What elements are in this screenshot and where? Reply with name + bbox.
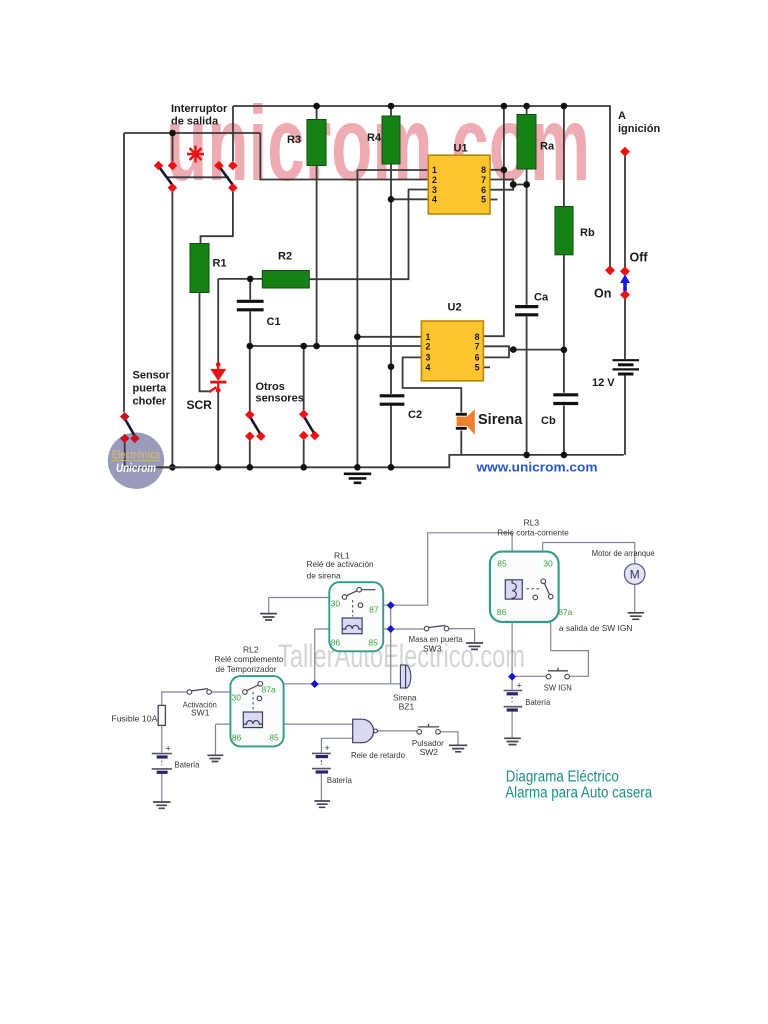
wire fuse bottom to battery [161, 725, 163, 752]
labels SW2 [412, 738, 444, 757]
svg-text:R4: R4 [367, 132, 382, 144]
svg-text:SW IGN: SW IGN [544, 682, 572, 692]
relay RL2 switch [243, 682, 263, 711]
node On diamond [620, 290, 630, 300]
sensor puerta chofer switch [120, 412, 140, 443]
wire C1 leads [249, 279, 251, 346]
ground top [344, 474, 371, 483]
svg-text:86: 86 [232, 733, 242, 743]
svg-text:A: A [618, 110, 626, 122]
motor de arranque [624, 564, 645, 585]
svg-text:a salida de SW IGN: a salida de SW IGN [559, 623, 633, 633]
wire RL1 coil left branch [315, 629, 343, 684]
svg-text:30: 30 [543, 559, 553, 569]
svg-text:SW1: SW1 [191, 707, 210, 717]
wire chofer switch bottom [124, 441, 126, 467]
wire battery left to ground [161, 774, 163, 802]
svg-text:Otros: Otros [256, 381, 285, 393]
svg-text:Masa en puerta: Masa en puerta [409, 634, 463, 644]
svg-text:Sirena: Sirena [478, 412, 523, 428]
wire NAND lower input to battery mid [321, 738, 352, 753]
resistor Ra [517, 115, 536, 170]
wire RL1 87 branch down to sirena line [390, 605, 392, 684]
svg-text:Ca: Ca [534, 292, 549, 304]
wire R4 leads down to U2 pin4 / C2 [390, 106, 392, 394]
svg-text:Fusible 10A: Fusible 10A [111, 714, 157, 724]
wire SCR cathode to rail [217, 391, 219, 468]
wire U2 pin 5 stub [483, 366, 490, 368]
relay RL2 coil [243, 712, 262, 728]
SCR [209, 362, 226, 392]
fuse Fusible 10A [158, 705, 165, 725]
resistor Rb [555, 207, 573, 255]
svg-text:puerta: puerta [133, 383, 168, 395]
svg-text:www.unicrom.com: www.unicrom.com [475, 461, 597, 475]
svg-text:8: 8 [475, 332, 480, 342]
wire SCR anode [217, 279, 219, 364]
wire RL3 87a to SW IGN [551, 599, 589, 677]
svg-text:RL2: RL2 [243, 645, 259, 655]
svg-text:R3: R3 [287, 134, 301, 146]
IC U1 [428, 155, 490, 214]
capacitor Cb [553, 395, 578, 404]
ground SW3 [466, 643, 483, 649]
sirena BZ1 speaker [400, 665, 410, 688]
wire switch1 down to bottom rail [171, 192, 173, 467]
labels RL2 [111, 645, 283, 770]
ground battery mid [314, 801, 330, 807]
wire node to battery right [511, 677, 513, 738]
svg-text:6: 6 [481, 185, 486, 195]
red starburst [187, 146, 204, 163]
otros sensores switch A [245, 410, 266, 441]
svg-text:SW2: SW2 [420, 747, 439, 757]
svg-text:6: 6 [475, 353, 480, 363]
svg-text:Batería: Batería [175, 760, 200, 770]
wire NAND output to SW2 [377, 731, 458, 745]
svg-text:Relé complemento: Relé complemento [215, 654, 284, 664]
battery right [504, 681, 523, 711]
svg-text:Batería: Batería [525, 697, 550, 707]
switch SW IGN [546, 668, 569, 679]
relay RL3 box [490, 552, 559, 622]
switch SW3 masa en puerta [424, 625, 449, 630]
wire switch2 to R1 [201, 192, 233, 244]
node blue diamond sirena line [311, 680, 319, 688]
svg-text:2: 2 [426, 342, 431, 352]
svg-text:3: 3 [426, 353, 431, 363]
svg-text:5: 5 [475, 363, 480, 373]
svg-text:C1: C1 [267, 316, 281, 328]
node blue diamond RL1 coil [387, 625, 395, 633]
relay RL3 switch [527, 579, 554, 600]
resistor R3 [307, 120, 326, 166]
wire U1 pin 4 [391, 198, 428, 200]
svg-text:+: + [517, 681, 522, 691]
svg-text:1: 1 [432, 165, 437, 175]
ground RL2 86 [207, 755, 223, 761]
wire C2 bottom [390, 406, 392, 468]
otros sensores switch B [299, 410, 320, 441]
svg-text:Alarma para Auto casera: Alarma para Auto casera [505, 785, 652, 802]
wire RL2 87a to sirena BZ1 [263, 683, 401, 685]
wire battery 12V leads [624, 298, 626, 455]
switch SW1 [187, 689, 211, 695]
ground RL1 30 [260, 614, 277, 620]
ground battery right [504, 738, 521, 744]
interruptor switch 2 [214, 161, 238, 193]
wire U1/U2 pin 8 riser [483, 106, 504, 336]
svg-text:Sensor: Sensor [133, 370, 171, 382]
svg-text:Rb: Rb [580, 227, 595, 239]
svg-text:C2: C2 [408, 409, 422, 421]
node A ignicion diamond [620, 147, 630, 157]
labels RL3 [497, 517, 569, 537]
wire U1 pin 7 and 6 join [490, 180, 527, 190]
svg-text:de Temporizador: de Temporizador [216, 664, 277, 674]
wire U2 pin 1 [357, 336, 421, 338]
svg-text:U2: U2 [448, 302, 462, 314]
svg-text:SW3: SW3 [423, 644, 442, 654]
switch SW2 pulsador [417, 724, 440, 734]
svg-text:SCR: SCR [187, 398, 213, 412]
ground SW2 [449, 745, 467, 752]
wire R3 leads [316, 106, 318, 346]
svg-text:chofer: chofer [133, 396, 167, 408]
node blue diamond RL1 87 [387, 601, 395, 609]
node blue diamond battery right [508, 673, 516, 681]
svg-text:4: 4 [426, 363, 431, 373]
wire sensors rail to U2 pin 2 [250, 345, 422, 347]
IC U2 [421, 321, 483, 381]
svg-text:Off: Off [630, 251, 649, 265]
wire SW IGN to node [512, 675, 546, 677]
logo circle Electronica Unicrom [108, 433, 180, 489]
ground motor [628, 613, 644, 620]
relay RL1 switch [342, 587, 375, 616]
wire battery mid to ground [320, 774, 322, 801]
svg-text:Ra: Ra [540, 141, 555, 153]
wire RL3 pin30 to motor [543, 543, 635, 580]
svg-text:7: 7 [481, 175, 486, 185]
wire R2 left [218, 278, 262, 280]
wire riser interruptor switch 1 [172, 133, 174, 161]
wire Rb leads / Cb [563, 106, 565, 455]
wire Ra leads / Ca [526, 106, 528, 455]
wire motor to ground [634, 584, 636, 612]
svg-text:3: 3 [432, 185, 437, 195]
wire RL2 coil left to ground 86 [216, 724, 244, 755]
wire R1 to SCR gate [200, 293, 212, 392]
svg-text:Motor de arranque: Motor de arranque [592, 548, 655, 558]
wire RL1 pin30 to ground [269, 598, 343, 614]
svg-text:RL3: RL3 [524, 517, 540, 527]
wire RL1 contact 87 to RL3 coil [363, 533, 512, 605]
resistor R4 [382, 116, 400, 164]
svg-text:85: 85 [368, 638, 378, 648]
node Off diamond left [605, 265, 615, 275]
capacitor C1 [237, 301, 264, 310]
svg-text:sensores: sensores [256, 393, 304, 405]
svg-text:Rele de retardo: Rele de retardo [351, 750, 405, 760]
svg-text:Relé de activación: Relé de activación [307, 559, 374, 569]
wire sirena bottom [460, 431, 462, 455]
svg-text:R2: R2 [278, 251, 292, 263]
capacitor C2 [380, 396, 405, 404]
wire U1 pin 1 / ground rail [357, 170, 428, 467]
NAND gate rele de retardo [353, 719, 378, 743]
capacitor Ca [515, 307, 538, 315]
svg-text:30: 30 [331, 599, 341, 609]
watermark unicrom.com [166, 85, 590, 203]
svg-text:8: 8 [481, 165, 486, 175]
svg-text:Interruptor: Interruptor [171, 103, 228, 115]
ground battery left [153, 802, 171, 808]
svg-text:de sirena: de sirena [307, 571, 341, 581]
wire U2 pin 7 and 6 join [483, 346, 564, 357]
svg-text:85: 85 [497, 559, 507, 569]
svg-text:R1: R1 [213, 258, 227, 270]
svg-text:85: 85 [269, 733, 279, 743]
svg-text:Diagrama Eléctrico: Diagrama Eléctrico [506, 769, 619, 786]
sirena speaker [456, 409, 475, 435]
wire RL3 unused contact stub [534, 600, 536, 612]
svg-text:12 V: 12 V [592, 377, 615, 389]
battery left [152, 744, 172, 773]
svg-text:87: 87 [369, 605, 379, 615]
svg-text:7: 7 [475, 342, 480, 352]
svg-text:ignición: ignición [618, 123, 660, 135]
wire top rail [233, 106, 610, 267]
wire sensor switch B leads [303, 346, 305, 467]
wire sensor switch A leads [249, 346, 251, 467]
svg-text:Cb: Cb [541, 415, 556, 427]
wire riser to interruptor switch 2 [232, 106, 234, 161]
svg-text:+: + [166, 744, 171, 754]
svg-text:Electrónica: Electrónica [112, 450, 160, 462]
title Diagrama Electrico [505, 769, 652, 802]
wire upper-left horizontal [124, 132, 260, 134]
svg-text:5: 5 [481, 195, 486, 205]
wire SW3 to ground [449, 629, 475, 643]
wire RL2 coil right to NAND input [263, 723, 353, 725]
resistor R1 [190, 244, 209, 293]
svg-text:+: + [325, 743, 330, 753]
node Off diamond right [620, 266, 630, 276]
relay RL1 coil [342, 618, 362, 634]
svg-text:2: 2 [432, 175, 437, 185]
wire ignition switch line [624, 152, 626, 267]
svg-text:1: 1 [426, 332, 431, 342]
relay RL3 coil [505, 580, 522, 599]
svg-text:Unicrom: Unicrom [116, 461, 156, 475]
wire left rail [123, 133, 125, 412]
labels sirena BZ1 [393, 693, 417, 712]
blue arrow [620, 275, 630, 292]
wire RL3 coil lead [511, 533, 513, 580]
svg-text:U1: U1 [454, 143, 468, 155]
relay RL1 box [329, 582, 383, 651]
svg-text:87a: 87a [262, 684, 276, 694]
svg-text:BZ1: BZ1 [399, 702, 415, 712]
labels SW3 [409, 634, 463, 654]
wire U1 pin 5 stub [490, 199, 498, 201]
wire U1 pin 3 to R2 right [309, 190, 428, 280]
labels RL1 [307, 551, 374, 581]
wire U2 pin 3 loop to sirena [403, 357, 462, 412]
wire fuse to SW1 to RL2 pin30 [162, 692, 243, 705]
svg-text:On: On [594, 287, 611, 301]
wire RL1 coil right to SW3 [362, 628, 424, 630]
wire crossbar between switch blades [167, 176, 229, 178]
svg-text:30: 30 [232, 693, 242, 703]
relay RL2 box [230, 676, 283, 746]
junction dots top schematic [169, 103, 567, 471]
resistor R2 [262, 271, 309, 289]
interruptor switch 1 [154, 161, 178, 193]
svg-text:Relé corta-corriente: Relé corta-corriente [497, 528, 569, 538]
wire bottom rail [125, 455, 624, 467]
battery mid [312, 743, 331, 772]
svg-text:86: 86 [331, 638, 341, 648]
battery 12V [613, 360, 640, 374]
wire RL3 86 down to node [511, 599, 513, 677]
svg-text:M: M [630, 568, 640, 582]
labels top schematic [133, 103, 661, 428]
svg-text:87a: 87a [558, 607, 572, 617]
wire RL2 NC stub [262, 697, 277, 699]
svg-text:4: 4 [432, 195, 437, 205]
svg-text:Batería: Batería [327, 775, 352, 785]
svg-text:de salida: de salida [171, 116, 219, 128]
svg-text:86: 86 [497, 607, 507, 617]
wire to U1 pin 2 [260, 133, 428, 180]
